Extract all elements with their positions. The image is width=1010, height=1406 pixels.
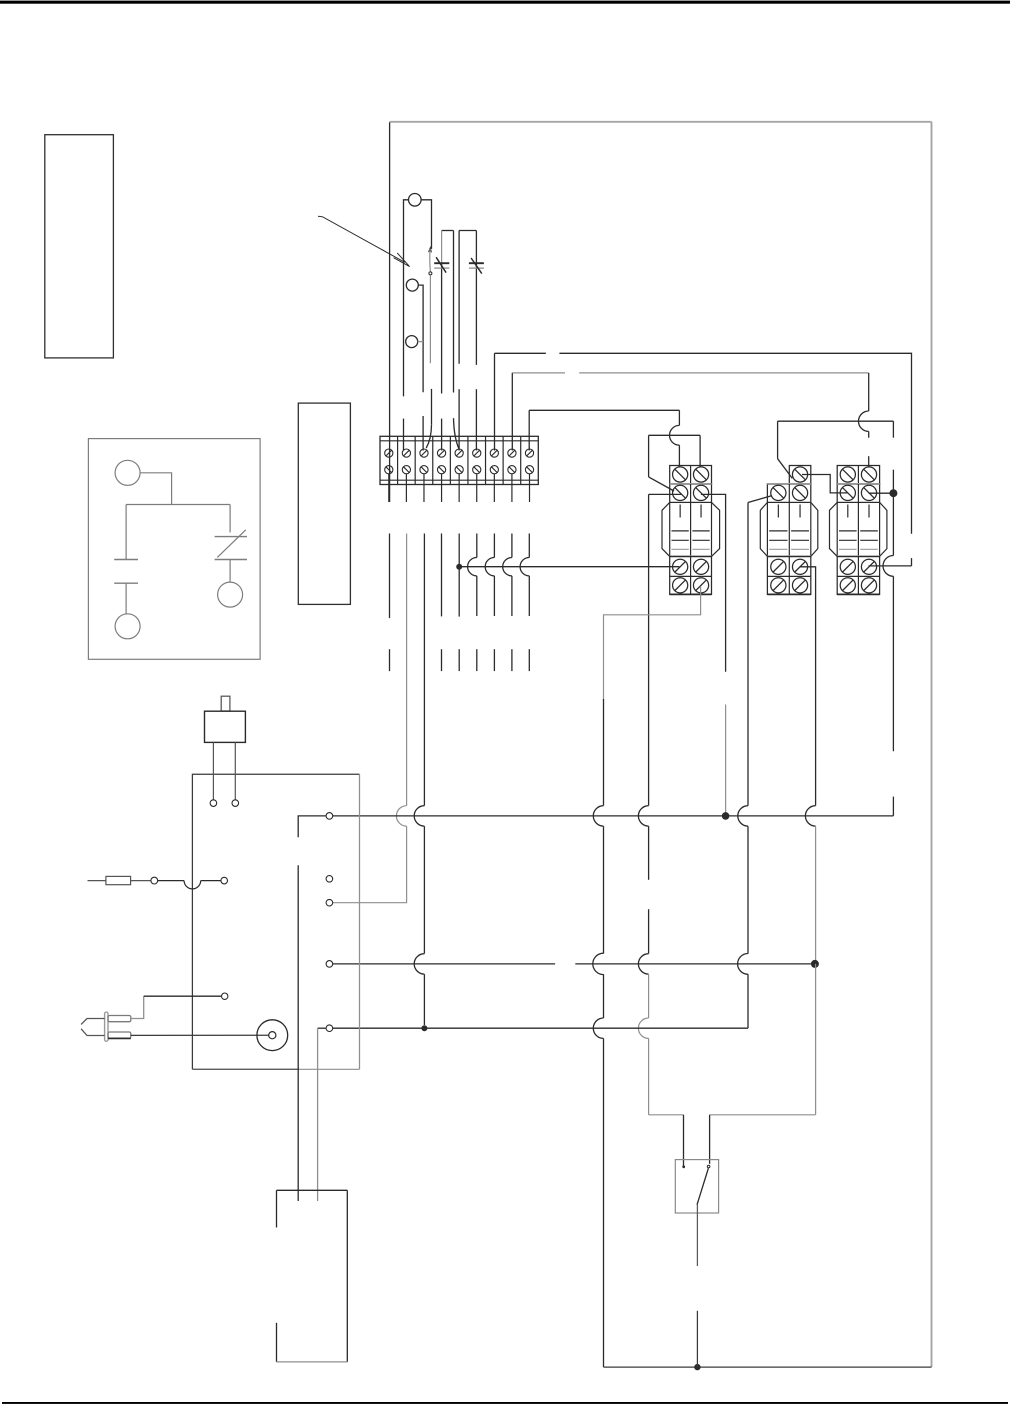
lamp body [81,1019,105,1036]
terminal circle lamp1 [222,993,228,999]
relay2 coil diagonal [748,496,772,503]
terminal circle r1 [151,877,158,884]
bus1 wire [333,815,894,817]
wire node horizontal [126,504,230,506]
wire terminal6 down lower [476,576,478,616]
terminal strip lower stubs [389,474,530,502]
relay1 crossbar wire [649,434,701,436]
relay1 coil wire horizontal [649,493,681,495]
wire V1 lower [603,1038,605,1367]
wire V1 upper [603,699,605,806]
wire T1 to node [140,473,172,505]
hop V1 bus3 [593,1018,603,1038]
contact loop K2 right [475,231,477,365]
lamp flange [105,1012,108,1041]
legend box top-left [45,135,114,358]
wire V5 seg2 [892,576,894,751]
thermal breaker bar upper [215,536,247,538]
terminal strip X1 body [380,436,538,484]
fuse lead left [212,742,214,799]
wire r1 to box [158,880,184,882]
junction dot bus2 [811,960,819,968]
contact loop K1 left lower [441,264,443,394]
wire breaker to circle [229,560,231,583]
enclosure right edge (wire) [931,122,933,1367]
wire V2 seg4 [648,974,650,1018]
bus3 wire main [333,1027,748,1029]
wire H4 left down [777,421,779,459]
hop V2 bus1 [638,806,648,826]
wire terminal9 down upper [528,534,530,558]
wire into relay1 top-left screw [678,445,680,467]
contact K1 slash [436,257,446,272]
junction dot bottom bus [694,1364,700,1370]
contact K1 bar black [434,262,449,264]
wire V1 seg2 [603,826,605,953]
thermal breaker slash [217,530,246,558]
switch blade arrow [429,248,432,253]
control box bottom edge [192,1068,359,1070]
thermal breaker bar lower [215,559,247,561]
wire P1 right to switch [421,200,431,249]
wire below pressure switch seg2 [696,1311,698,1367]
lamp wire lower [131,1034,269,1036]
wire right branch [229,505,231,533]
terminal circle f1 [210,800,217,807]
terminal circle f2 [232,800,239,807]
indicator circle right [218,582,243,607]
wire terminal4 down [441,534,443,617]
hop V3 bus2 [738,954,748,975]
wire V2 bottom horizontal [649,1114,684,1116]
hop V3 bus1 [738,806,748,826]
bottom box bottom edge [277,1361,348,1363]
wire k1 left and down [298,816,326,837]
pressure switch box [675,1160,718,1213]
wire t7 dash [493,649,495,671]
wire diagonal into relay2 top screw [778,459,793,479]
potentiometer center [269,1032,276,1039]
bottom box left edge lower [276,1323,278,1362]
wire k5 left and down (gray) [317,1028,319,1201]
wire terminal9 up [528,410,530,450]
contact K2 bar gray [469,267,484,269]
fuse lead right [234,742,236,799]
wire V3 upper [747,503,749,806]
wire into relay3 top-right screw [868,456,870,467]
switch wire curve into terminal 3 [426,425,431,448]
terminal circle k3 [326,899,333,906]
hop t2 over bus1 [396,806,406,826]
annotation arrowhead [394,253,410,267]
wire terminal8 up [511,373,513,451]
relay K2 body [760,466,818,595]
wire V2 seg2 [648,826,650,880]
wire into pressure switch left [683,1115,685,1167]
wire into terminal 6 [475,389,477,450]
hop under box edge [184,881,201,889]
wire into terminal 5 straight [458,389,460,450]
wire P2 right [418,285,423,392]
wire t3 lower [423,974,425,1025]
bottom box right edge [346,1190,348,1362]
hop t3 over bus1 [414,806,424,826]
pressure switch contact dot left [682,1165,685,1168]
capacitor plate upper [114,559,138,561]
contact loop K1 top [442,230,454,232]
junction dot on bus3 [421,1025,427,1031]
relay K1 body [662,466,720,595]
terminal strip lower screws [385,466,534,474]
contact loop K2 left [458,231,460,364]
hop V1 bus1 [593,806,603,826]
wire seg below hop [868,431,870,437]
bus2 wire right [575,963,815,965]
relay3 bottom bus [869,565,912,567]
bus3 wire [318,1027,327,1029]
pressure switch blade tick [707,1165,710,1168]
legend box mid [298,403,350,604]
bottom box left edge upper [276,1190,278,1227]
hop over H4 [859,411,869,431]
wire into pressure switch right [709,1115,711,1164]
relay1 crossbar right down [699,435,701,467]
terminal circle k5 [326,1025,333,1032]
relay1 output gray jog [604,586,701,700]
hop V1 bus2 [593,953,604,974]
junction dot bus0 [456,564,462,570]
wire P3 stub [418,341,423,343]
relay3 aux to junction [869,492,894,494]
wire H1 stub to relay3 bus [911,558,913,566]
wire t6 dash [476,649,478,671]
enclosure left edge / wire L1 [389,122,391,502]
terminal strip upper screws [385,449,534,457]
wire terminal8 down lower [511,576,513,616]
wire V5 top seg [892,470,894,494]
terminal circle k1 [326,813,333,820]
relay K3 body [830,466,887,595]
wire terminal9 down lower [528,576,530,616]
wire P1 into terminal 2 [403,419,405,451]
terminal circle P2 [406,279,418,291]
relay1 aux wire lower (gray) [725,705,727,816]
wire L1 dash [389,649,391,671]
wire into terminal 3 [422,416,424,451]
wire V3 seg2 [747,826,749,953]
hop V2 bus3 [638,1018,648,1038]
lamp wire upper black [144,995,222,997]
wire V3 lower [747,974,749,1028]
resistor R1 [106,876,131,884]
wire H4 right down [892,421,894,438]
relay2 bottom wire right [800,567,816,806]
contact K1 bar gray [434,267,449,269]
wire H4 [778,420,894,422]
wire V2 seg5 [648,1038,650,1114]
wire left branch [125,505,127,560]
bus2 wire left [333,963,555,965]
resistor lead right [131,880,151,882]
resistor lead left [88,880,106,882]
wire terminal7 down lower [493,576,495,616]
indicator circle bottom-left [115,614,140,639]
contact loop K2 top [459,230,476,232]
hop t7 over bus0 [485,558,494,576]
junction dot relay3 [889,489,897,497]
wire t8 dash [511,649,513,671]
wire H2 right segment [579,372,869,374]
contact loop K1 left upper [441,231,443,263]
wire capacitor to lamp [125,583,127,614]
capacitor plate lower [114,582,138,584]
wire t9 dash [528,649,530,671]
wire into terminal 4 [441,419,443,451]
lamp pin lower bottom edge [108,1037,131,1039]
bottom box top edge [277,1189,348,1191]
relay1 aux wire right [701,494,726,671]
pressure switch blade [697,1168,708,1205]
enclosure top edge [390,121,932,123]
wire V4 mid (gray) [815,826,817,964]
wire V4 lower (gray) [815,964,817,1115]
wire P1 left [404,200,409,397]
switch blade pivot [429,272,432,275]
wire L1 mid segment [389,534,391,619]
junction dot bus1 [722,812,730,820]
hop V2 bus2 [638,954,648,974]
wire V2 upper [648,494,650,805]
wire H1 right segment [559,353,911,533]
contact K2 slash [471,258,482,274]
wire terminal2 down (gray) [406,534,408,806]
wire terminal7 down upper [493,534,495,558]
control box right edge [359,774,361,1069]
wire V5 below dot [892,493,894,555]
page header bar [0,1,1010,4]
wire below pressure switch [696,1205,698,1266]
wire terminal5 down [458,534,460,617]
wire to circle k-res [201,880,221,882]
fuse holder tab [221,696,230,711]
contact K2 bar black [469,262,484,264]
lamp pin lower [108,1032,131,1038]
bottom bus wire [604,1366,932,1368]
switch blade [429,249,432,272]
wire terminal7 up [494,353,496,450]
contact loop K1 right [453,231,455,393]
wire t3 mid [423,826,425,953]
wire V2 seg3 [648,909,650,953]
fuse holder body [205,711,246,742]
potentiometer circle [257,1020,288,1051]
wire H2 left segment [512,372,565,374]
hop V4 bus1 [805,806,815,826]
terminal circle P1 [409,194,422,207]
transformer circle T1 primary [115,460,140,485]
wire terminal6 down upper [476,534,478,558]
switch wire lower gray [429,275,431,363]
wire t4 dash [441,649,443,671]
relay1 crossbar left down [648,435,650,477]
power box outline [88,439,260,660]
terminal circle P3 [406,336,418,348]
hop t6 over bus0 [468,558,477,576]
relay2 top screw to relay3 [802,475,848,493]
wire t5 dash [458,649,460,671]
wire terminal8 down upper [511,534,513,558]
relay K2 screws [771,467,808,593]
hop t8 over bus0 [503,558,512,576]
wire t2 to circle k3 [333,826,407,903]
hop t3 over bus2 [414,954,424,974]
wire H2 down to relay3 [868,373,870,411]
wire K1 curve into terminal 5 [454,418,459,448]
wire terminal3 down [423,534,425,806]
relay K3 screws [840,467,876,593]
control box left+top [192,774,359,1069]
relay K1 screws [673,467,709,593]
wire H1 left segment [495,352,546,354]
hop t9 over bus0 [520,558,529,576]
switch wire lower black [431,389,433,425]
relay1 diagonal into coil screw [649,477,674,491]
wire bottom horizontal right part [710,1114,816,1116]
wire V5 seg3 [892,797,894,816]
wire k1 drop lower [297,865,299,1201]
hop over relay1 crossbar [670,425,680,445]
terminal circle k2 [326,876,333,883]
wire V1 seg3 [603,974,605,1018]
lamp pin upper [108,1016,131,1022]
bus0 wire [462,566,679,568]
terminal circle k-res [221,877,228,884]
annotation arrow shaft [318,216,405,262]
wire H3 [529,409,679,411]
lamp wire upper gray [131,996,144,1018]
wire H3 down [678,410,680,425]
hop V5 over relay3 bus [883,556,893,577]
page footer rule [2,1402,1008,1404]
terminal circle k4 [326,961,333,968]
